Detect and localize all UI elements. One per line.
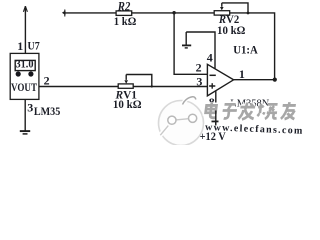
- svg-text:3: 3: [27, 100, 33, 114]
- svg-text:1 kΩ: 1 kΩ: [114, 14, 137, 28]
- svg-text:10 kΩ: 10 kΩ: [113, 97, 142, 111]
- svg-text:1: 1: [239, 67, 245, 81]
- svg-text:4: 4: [207, 50, 213, 64]
- svg-text:U7: U7: [28, 39, 40, 53]
- svg-text:U1:A: U1:A: [233, 43, 258, 57]
- svg-text:VOUT: VOUT: [11, 80, 37, 94]
- svg-text:2: 2: [196, 61, 202, 75]
- svg-text:LM35: LM35: [34, 104, 60, 118]
- svg-text:10 kΩ: 10 kΩ: [217, 23, 246, 37]
- svg-text:3: 3: [196, 74, 202, 88]
- svg-text:1: 1: [17, 39, 23, 53]
- svg-text:2: 2: [44, 73, 50, 87]
- svg-text:R2: R2: [117, 0, 130, 13]
- svg-text:31.0: 31.0: [16, 58, 34, 70]
